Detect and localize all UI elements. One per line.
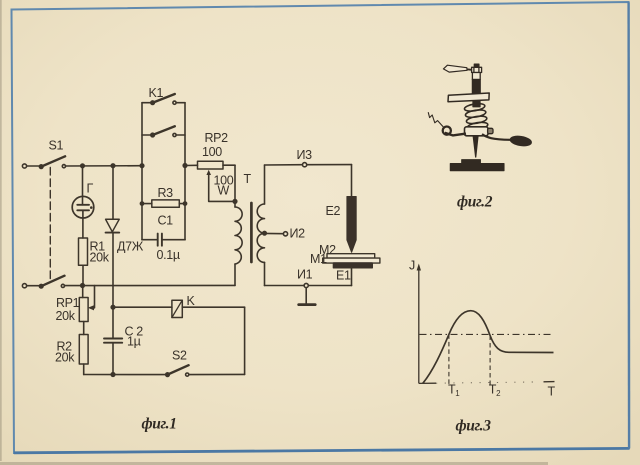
svg-text:S1: S1 (49, 139, 64, 153)
graph Y axis (418, 267, 420, 384)
potentiometer RP1 wiper riser (90, 286, 94, 308)
Fig.2 engraver: handle knob (510, 135, 532, 147)
Fig.2 engraver: shaft below disc (473, 102, 480, 107)
Fig.2 engraver: spring (464, 102, 488, 131)
Fig.2 engraver: left arm (445, 133, 466, 136)
lamp G dot (90, 206, 93, 209)
wire centre tap to I2 (265, 232, 284, 234)
wire rail to RP2 (185, 164, 198, 166)
switch S2 contact (186, 373, 189, 376)
wire diode to C2 column (112, 233, 114, 339)
wire secondary top rail (265, 164, 303, 166)
switch S1 mechanical link (dashed) (49, 168, 51, 282)
relay coil K diagonal (172, 300, 182, 317)
Fig.2 engraver: workpiece bar (450, 164, 504, 171)
wire transformer secondary bottom (264, 262, 266, 285)
switch S1 pole B terminal (22, 284, 26, 288)
switch S1 pole A contact (62, 165, 65, 168)
wire I3 to electrode (307, 164, 352, 166)
wire C2 to bottom rail (112, 343, 114, 375)
svg-text:RP2: RP2 (205, 131, 229, 145)
svg-text:K1: K1 (149, 86, 164, 100)
wire lamp to R1 (82, 210, 84, 238)
graph T2 dashed vertical (489, 336, 491, 386)
switch S2 blade (168, 365, 189, 374)
switch S1 pole A blade (41, 156, 65, 166)
relay contact K1b wire (176, 134, 185, 136)
node junction left bus (140, 164, 144, 168)
wire R1 to mid rail (82, 265, 84, 285)
node R3 left (140, 202, 143, 205)
wire to RP1 (82, 286, 84, 298)
node junction lamp top (81, 164, 85, 168)
diode D7Zh triangle (106, 219, 120, 232)
svg-text:0.1µ: 0.1µ (157, 248, 180, 262)
relay contact K1b blade (153, 126, 175, 135)
svg-text:E2: E2 (326, 204, 341, 218)
graph steady level dash-dot line (420, 333, 554, 335)
potentiometer RP2 wiper stem (209, 174, 235, 201)
relay contact K1b wire (142, 134, 152, 136)
graph X axis tick at T (544, 381, 555, 383)
node secondary centre tap (263, 231, 267, 235)
node junction bottom rail (111, 373, 115, 377)
Fig.2 engraver: nut (472, 67, 482, 72)
wire (27, 285, 41, 287)
resistor R3 (152, 200, 180, 207)
svg-text:C1: C1 (158, 214, 174, 228)
relay contact K1b contact (173, 133, 176, 136)
workpiece plate M2 (327, 254, 375, 258)
resistor R1 (79, 238, 88, 265)
Fig.2 engraver: bolt tip (474, 64, 479, 67)
wire relay branch left (113, 306, 172, 308)
capacitor C1 plate right (161, 234, 163, 246)
wire transformer primary bottom (234, 264, 236, 285)
Fig.2 engraver: flange disc (448, 93, 489, 102)
graph X axis (faint) (419, 382, 436, 384)
svg-text:T: T (548, 385, 556, 399)
svg-text:J: J (409, 259, 415, 273)
capacitor C2 plate lower (104, 342, 122, 344)
wire transformer primary top (234, 165, 236, 207)
switch S1 pole B contact (61, 284, 64, 287)
svg-text:K: K (187, 294, 196, 308)
Fig.3 graph (417, 264, 555, 386)
relay contact K1a blade (153, 94, 175, 103)
Fig.2 engraver: side knob (488, 128, 493, 133)
graph current curve (423, 311, 554, 384)
terminal I3 (303, 163, 307, 167)
wire I1 to E1 (308, 285, 351, 287)
relay contact K1a wire (176, 102, 185, 104)
Fig.2 engraver: shaft dark section (472, 80, 480, 94)
lamp G feed wire (82, 166, 84, 205)
transformer T primary winding (235, 207, 242, 264)
relay contact K1b pivot (151, 133, 155, 137)
capacitor C2 plate upper (104, 338, 122, 340)
switch S1 pole B pivot (39, 284, 43, 288)
svg-text:И3: И3 (297, 148, 313, 162)
svg-text:Г: Г (87, 182, 94, 196)
node wiper to primary (233, 200, 237, 204)
relay contact K1a contact (173, 101, 176, 104)
graph T1 dashed vertical (448, 334, 450, 385)
relay contact K1a pivot (151, 101, 155, 105)
svg-text:E1: E1 (336, 269, 351, 283)
Fig.2 engraver: wing nut handle (428, 64, 532, 170)
wire bottom rail right (189, 373, 245, 375)
svg-text:И1: И1 (297, 268, 313, 282)
lamp G electrode upper (77, 204, 89, 206)
Fig.2 engraver: workpiece step (462, 160, 481, 164)
node junction R1 bottom (81, 284, 85, 288)
electrode E2 needle (347, 197, 356, 253)
wire transformer secondary top (264, 165, 266, 204)
transformer T secondary winding (257, 204, 264, 262)
node junction relay branch (111, 305, 115, 309)
transformer T core (250, 203, 253, 262)
svg-text:фиг.1: фиг.1 (142, 416, 177, 433)
wire mid rail (65, 284, 235, 286)
Fig.2 engraver: pivot wire zigzag (428, 112, 443, 127)
svg-text:фиг.2: фиг.2 (457, 194, 493, 211)
wire top rail left (66, 165, 142, 167)
capacitor C1 branch wire (162, 239, 185, 241)
wire electrode E2 drop (351, 165, 353, 197)
wire R2 to bottom rail (83, 364, 85, 375)
frame bottom edge thick (14, 448, 629, 452)
svg-text:Д7Ж: Д7Ж (117, 240, 144, 254)
node junction right bus (183, 164, 187, 168)
svg-text:100: 100 (202, 145, 222, 159)
svg-text:20k: 20k (55, 351, 75, 365)
potentiometer RP2 wiper arrowhead (206, 170, 211, 175)
wire relay branch right (182, 306, 244, 308)
discharge lamp G envelope (72, 196, 94, 218)
wire E1 to bottom (351, 268, 353, 286)
wire secondary bottom rail (265, 285, 305, 287)
svg-text:R3: R3 (158, 186, 174, 200)
wire (27, 165, 41, 167)
node junction diode top (111, 164, 115, 168)
svg-text:M1: M1 (310, 252, 327, 266)
resistor R2 (79, 335, 88, 365)
potentiometer RP2 (198, 161, 224, 169)
Fig.2 engraver: right handle arm (482, 134, 510, 140)
switch S1 pole A pivot (39, 165, 43, 169)
wire relay loop right side (244, 307, 246, 374)
Fig.2 engraver: wing to bolt link (467, 68, 472, 71)
potentiometer RP1 wiper arrowhead (88, 305, 94, 310)
switch S1 pole B blade (41, 276, 64, 287)
capacitor C1 branch wire (142, 239, 158, 241)
svg-text:RP1: RP1 (56, 296, 80, 310)
Fig.2 engraver: needle (473, 136, 478, 157)
ground bar (299, 303, 316, 306)
graph Y axis arrowhead (417, 264, 421, 271)
node R3 right (183, 202, 186, 205)
svg-text:W: W (218, 184, 230, 198)
lamp G electrode lower (77, 209, 89, 211)
svg-text:20k: 20k (90, 251, 110, 265)
Fig.2 engraver: shaft upper light section (472, 73, 480, 80)
electrode E1 plate (334, 263, 373, 268)
wire RP2 to transformer (223, 164, 235, 166)
wire RP1 to R2 (83, 322, 85, 335)
Fig.2 engraver: collet block (465, 127, 489, 136)
svg-text:1µ: 1µ (127, 335, 141, 349)
K1 left bus (141, 103, 143, 240)
svg-text:S2: S2 (172, 349, 187, 363)
svg-text:И2: И2 (290, 227, 306, 241)
svg-text:T: T (244, 172, 252, 186)
resistor R3 branch wire (179, 203, 185, 205)
potentiometer RP1 (79, 298, 88, 322)
relay contact K1a wire (142, 102, 152, 104)
switch S2 pivot (166, 373, 170, 377)
resistor R3 branch wire (142, 203, 152, 205)
workpiece plate M1 (323, 258, 380, 263)
svg-text:20k: 20k (56, 309, 76, 323)
frame right edge thick (627, 2, 630, 448)
diode D7Zh cathode bar (106, 232, 120, 234)
Fig.2 engraver: pivot ring (443, 127, 451, 135)
wire bottom rail left (84, 374, 168, 376)
ground stem (305, 288, 307, 304)
capacitor C1 plate left (157, 234, 159, 246)
terminal I2 (283, 232, 287, 236)
switch S1 pole A terminal (22, 164, 26, 168)
relay coil K (172, 300, 182, 317)
svg-text:фиг.3: фиг.3 (456, 418, 492, 435)
K1 right bus (184, 103, 186, 240)
diode D7Zh feed wire (112, 166, 114, 220)
terminal I1 (304, 283, 308, 287)
